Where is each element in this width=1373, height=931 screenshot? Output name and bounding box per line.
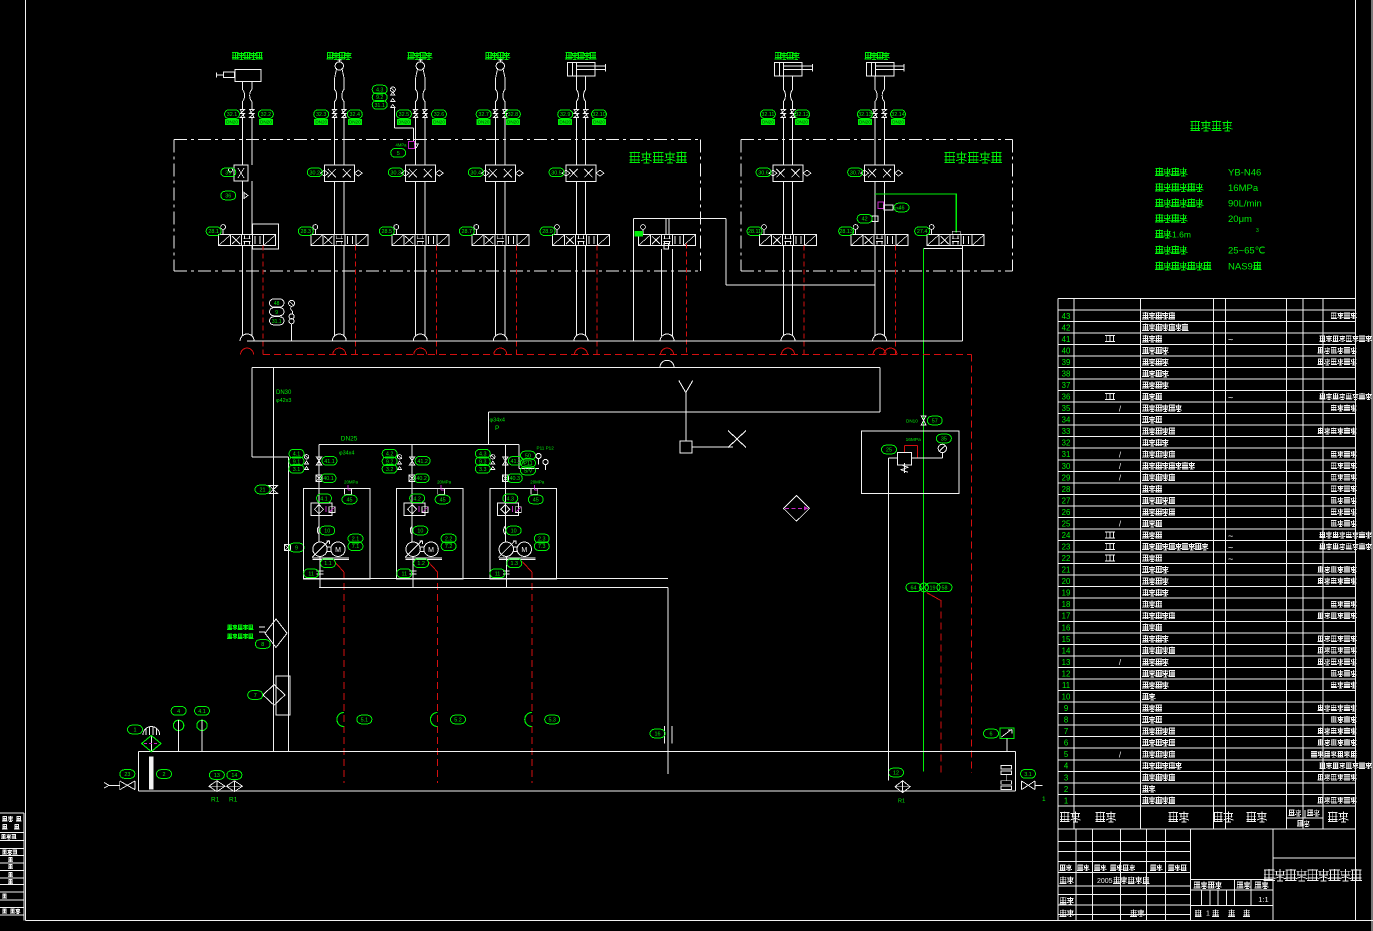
wire: valve9 bottom <box>924 248 963 250</box>
svg-text:8: 8 <box>1064 716 1068 725</box>
svg-text:P11 P12: P11 P12 <box>537 446 555 451</box>
R1 ovals <box>209 771 224 780</box>
svg-text:DN20: DN20 <box>593 120 605 125</box>
hose pair branch 7 <box>875 82 877 109</box>
tank top line <box>139 750 1016 752</box>
title block middle labels <box>1194 882 1222 889</box>
label oval 2 <box>157 770 172 779</box>
svg-text:32.8: 32.8 <box>508 112 519 118</box>
double throttle check module branch 6 <box>773 165 803 181</box>
DN30 return line <box>272 367 274 751</box>
title block right <box>1273 857 1356 859</box>
svg-text:DN20: DN20 <box>260 120 272 125</box>
left margin texts <box>2 816 13 821</box>
svg-text:28.1: 28.1 <box>208 229 219 235</box>
svg-text:DN20: DN20 <box>892 120 904 125</box>
svg-text:30.7: 30.7 <box>850 170 861 176</box>
svg-text:3: 3 <box>1064 773 1068 782</box>
svg-text:28.11: 28.11 <box>748 229 761 235</box>
svg-text:5: 5 <box>397 151 400 157</box>
svg-text:32.6: 32.6 <box>434 112 445 118</box>
svg-text:16: 16 <box>1062 623 1071 632</box>
svg-text:41.3: 41.3 <box>511 459 522 465</box>
svg-text:36: 36 <box>1062 393 1071 402</box>
svg-text:40: 40 <box>1062 346 1071 355</box>
wire: branch 2 lines into box <box>334 118 336 165</box>
wire: branch 2 actuator to hose <box>335 68 344 82</box>
label oval 32.4 <box>347 110 362 119</box>
svg-text:6: 6 <box>990 732 993 738</box>
svg-text:29: 29 <box>1062 473 1071 482</box>
svg-text:R1: R1 <box>211 797 220 804</box>
quick couplers branch 5 <box>574 110 588 118</box>
directional valve 6 (spare) <box>651 235 684 246</box>
svg-text:23: 23 <box>1062 543 1071 552</box>
wire: bus2 to P riser <box>879 367 881 412</box>
svg-text:25: 25 <box>886 448 892 454</box>
svg-text:11: 11 <box>495 571 501 577</box>
label oval 9 <box>289 543 304 552</box>
hydraulic cylinder (branch 6) <box>775 63 803 77</box>
tech parameters title <box>1190 121 1232 131</box>
svg-text:30.4: 30.4 <box>471 170 482 176</box>
gauge group symbols (branch 3) <box>390 87 395 92</box>
svg-text:41.2: 41.2 <box>417 459 428 465</box>
svg-text:16MPa: 16MPa <box>906 437 922 443</box>
wire: branch 4 actuator to hose <box>496 68 505 82</box>
branch 7 pressure valve (magenta) <box>878 202 884 209</box>
svg-text:DN10: DN10 <box>906 419 918 424</box>
svg-text:32.10: 32.10 <box>592 112 606 118</box>
wire: module to valve branch 4 <box>495 181 497 234</box>
drain funnel (green) <box>525 713 532 727</box>
svg-text:30: 30 <box>1062 462 1071 471</box>
BOM row lines <box>1058 320 1355 322</box>
label oval 1b <box>128 725 143 734</box>
svg-text:31.1: 31.1 <box>272 319 282 325</box>
hydraulic motor M4 (branch 4) <box>496 62 504 70</box>
module oval branch 7 <box>848 168 863 177</box>
label oval 35 <box>936 434 951 443</box>
wire: branch 1 lines into box <box>241 118 243 165</box>
green return line <box>923 249 925 772</box>
svg-text:4.1: 4.1 <box>198 709 206 715</box>
svg-text:20: 20 <box>1062 577 1071 586</box>
svg-text:48: 48 <box>274 301 280 307</box>
module oval branch 5 <box>549 168 564 177</box>
svg-text:DN25: DN25 <box>341 436 358 443</box>
white bus 2 (return) <box>252 366 880 368</box>
svg-text:10: 10 <box>417 529 423 535</box>
svg-text:20μm: 20μm <box>1228 214 1252 225</box>
green valve ovals <box>906 583 921 592</box>
svg-text:20MPa: 20MPa <box>344 480 358 485</box>
svg-text:1.3: 1.3 <box>511 561 519 567</box>
left margin table <box>23 813 25 920</box>
svg-text:3.1: 3.1 <box>293 467 301 473</box>
label oval 21 <box>255 485 270 494</box>
relief valve (red pilot) <box>904 446 917 459</box>
label oval 23 <box>120 770 135 779</box>
pump manifold DN25 <box>319 443 519 445</box>
svg-text:27.4: 27.4 <box>917 229 928 235</box>
label oval 32.7 <box>476 110 491 119</box>
svg-text:32.4: 32.4 <box>350 112 361 118</box>
svg-text:14: 14 <box>231 773 237 779</box>
svg-text:30.3: 30.3 <box>391 170 402 176</box>
label oval 32.14 <box>891 110 906 119</box>
svg-text:DN20: DN20 <box>559 120 571 125</box>
suction bus <box>319 586 668 588</box>
svg-text:14: 14 <box>1062 646 1071 655</box>
svg-text:19: 19 <box>930 585 936 591</box>
hose pair branch 2 <box>335 82 337 109</box>
directional valve branch 1 <box>231 235 264 246</box>
svg-text:4.1: 4.1 <box>320 496 328 502</box>
label oval 32.12 <box>795 110 810 119</box>
svg-text:19: 19 <box>1062 589 1071 598</box>
svg-text:36: 36 <box>225 194 231 200</box>
quick couplers branch 1 <box>240 110 254 118</box>
svg-text:R1: R1 <box>898 799 905 805</box>
red drain right 2 <box>971 355 973 773</box>
svg-text:8: 8 <box>261 642 264 648</box>
quick couplers branch 2 <box>332 110 346 118</box>
svg-text:3: 3 <box>1256 228 1259 234</box>
svg-text:11: 11 <box>1062 681 1070 690</box>
label oval 32.8 <box>505 110 520 119</box>
relief mini valve (branch 3, magenta) <box>408 142 414 149</box>
svg-text:DN20: DN20 <box>349 120 361 125</box>
svg-text:10: 10 <box>324 529 330 535</box>
svg-text:M: M <box>428 547 434 554</box>
label oval 32.10 <box>592 110 607 119</box>
wire: module to valve branch 7 <box>874 181 876 234</box>
svg-text:45: 45 <box>533 498 539 504</box>
svg-text:32.7: 32.7 <box>478 112 489 118</box>
svg-text:28.5: 28.5 <box>382 229 393 235</box>
svg-text:10: 10 <box>1062 693 1071 702</box>
wire: green pilot line from branch 7 <box>875 194 956 232</box>
svg-text:5.3: 5.3 <box>548 718 556 724</box>
directional valve branch 7 <box>863 235 896 246</box>
wire: branch 5 lines into box <box>575 118 577 165</box>
title block middle grid <box>1190 829 1192 921</box>
svg-text:22: 22 <box>1062 554 1071 563</box>
label oval 36 <box>221 191 236 200</box>
label oval 32.6 <box>432 110 447 119</box>
dash-dot enclosure: opener machine section <box>174 138 700 140</box>
svg-text:5: 5 <box>1064 750 1069 759</box>
svg-text:45: 45 <box>440 498 446 504</box>
svg-text:32.12: 32.12 <box>795 112 809 118</box>
svg-text:~: ~ <box>1228 542 1233 552</box>
svg-text:1.1: 1.1 <box>324 561 332 567</box>
svg-text:28.3: 28.3 <box>301 229 312 235</box>
sequence valve (branch 1) <box>234 165 248 181</box>
svg-text:YB-N46: YB-N46 <box>1228 168 1261 179</box>
R1 filter right <box>895 781 910 793</box>
wire: branch 6 lines into box <box>782 118 784 165</box>
drain funnel (green) <box>337 713 344 727</box>
svg-text:2: 2 <box>1064 785 1068 794</box>
svg-text:1: 1 <box>134 728 137 734</box>
svg-text:R1: R1 <box>229 797 238 804</box>
ball valve on line <box>285 545 291 551</box>
label: branch 7 name (green) <box>864 52 889 60</box>
red drain valve 6 <box>686 244 688 355</box>
svg-text:7.3: 7.3 <box>538 544 546 550</box>
relief valve box <box>861 431 959 493</box>
hose pair branch 3 <box>416 82 418 109</box>
wire: bus2 left drop <box>251 367 253 457</box>
svg-text:40.1: 40.1 <box>323 476 334 482</box>
svg-text:31.1: 31.1 <box>374 103 385 109</box>
svg-text:1:1: 1:1 <box>1258 895 1268 904</box>
hydraulic motor M3 (branch 3) <box>416 62 424 70</box>
svg-text:DN20: DN20 <box>315 120 327 125</box>
wire: module to valve branch 3 <box>415 181 417 234</box>
pilot filter diamond <box>784 495 810 521</box>
level switch <box>984 729 999 738</box>
return filter 8 <box>265 619 287 647</box>
svg-text:DN20: DN20 <box>796 120 808 125</box>
svg-text:45: 45 <box>347 498 353 504</box>
label oval 32.1 <box>225 110 240 119</box>
wire: relief pilot <box>889 457 898 459</box>
svg-text:41: 41 <box>1062 335 1071 344</box>
svg-text:DN30: DN30 <box>276 390 292 396</box>
svg-text:4: 4 <box>177 709 180 715</box>
red drain bus <box>263 354 972 356</box>
svg-text:DN20: DN20 <box>762 120 774 125</box>
pump unit 1 (pump P1 + motor M) <box>318 444 320 542</box>
svg-text:23: 23 <box>124 772 130 778</box>
module oval branch 4 <box>468 168 483 177</box>
wire: branch 7 cylinder to hose <box>874 76 876 82</box>
svg-text:33: 33 <box>1062 427 1071 436</box>
label: filter text <box>227 625 253 630</box>
svg-text:90L/min: 90L/min <box>1228 199 1262 210</box>
level gauge circles <box>173 720 183 730</box>
wire: gauge group to branch 3 <box>393 108 395 128</box>
pump unit 3 (pump P3 + motor M) <box>504 444 506 542</box>
NAS9 grade suffix <box>1253 262 1261 270</box>
svg-text:32.14: 32.14 <box>891 112 905 118</box>
svg-text:1: 1 <box>1064 796 1068 805</box>
red drain from pump unit <box>522 562 532 573</box>
svg-text:32: 32 <box>1062 439 1071 448</box>
hose pair branch 5 <box>576 82 578 109</box>
wire: valve 6 to bus <box>782 246 784 335</box>
svg-text:7: 7 <box>1064 727 1068 736</box>
svg-text:20MPa: 20MPa <box>530 480 544 485</box>
hose pair branch 1 <box>242 82 244 109</box>
BOM header row <box>1058 828 1355 830</box>
svg-text:32.1: 32.1 <box>227 112 238 118</box>
svg-text:30.6: 30.6 <box>758 170 769 176</box>
svg-text:9: 9 <box>295 546 298 552</box>
air breather <box>143 727 160 735</box>
label oval 39 <box>221 168 236 177</box>
svg-text:18: 18 <box>1062 600 1071 609</box>
label oval 8 <box>255 640 270 649</box>
svg-text:58: 58 <box>942 585 948 591</box>
BOM table grid <box>1057 298 1059 829</box>
svg-text:32.11: 32.11 <box>761 112 774 118</box>
svg-text:1.6m: 1.6m <box>1172 229 1191 239</box>
svg-text:DN20: DN20 <box>226 120 238 125</box>
dash-dot enclosure: hydraulic gun section <box>741 138 1012 140</box>
suction strainer <box>665 726 672 744</box>
svg-text:~: ~ <box>1228 335 1233 345</box>
spare valve enclosure <box>633 217 726 219</box>
wire: valve 5 to bus <box>575 246 577 335</box>
wire: branch 7 lines into box <box>874 118 876 165</box>
return filter 7 <box>276 676 290 715</box>
label: opener machine section (green) <box>629 152 687 164</box>
drawing title <box>1263 869 1362 881</box>
svg-text:3.3: 3.3 <box>479 467 487 473</box>
svg-text:26: 26 <box>1062 508 1071 517</box>
svg-text:17: 17 <box>1062 612 1071 621</box>
quick couplers branch 6 <box>781 110 795 118</box>
label oval 32.11 <box>760 110 775 119</box>
label oval 32.2 <box>258 110 273 119</box>
svg-text:DN20: DN20 <box>433 120 445 125</box>
title block left grid <box>1057 829 1059 921</box>
svg-text:3.2: 3.2 <box>386 467 394 473</box>
R1 return filters <box>209 781 225 792</box>
svg-text:7.1: 7.1 <box>352 544 360 550</box>
red drain right 1 <box>927 593 942 601</box>
hose pair branch 4 <box>496 82 498 109</box>
svg-text:20MPa: 20MPa <box>437 480 451 485</box>
svg-text:DN20: DN20 <box>478 120 490 125</box>
svg-text:12: 12 <box>893 771 899 777</box>
title block row labels <box>1060 865 1072 871</box>
hydraulic cylinder (branch 5) <box>568 63 596 77</box>
red drain from pump unit <box>334 562 344 573</box>
svg-text:40.2: 40.2 <box>416 476 427 482</box>
hydraulic cylinder (branch 7) <box>866 63 894 77</box>
wire: valve 2 to bus <box>334 246 336 335</box>
wire: branch 5 cylinder to hose <box>575 76 577 82</box>
svg-text:~: ~ <box>1228 531 1233 541</box>
tech parameter row <box>1155 168 1187 177</box>
pressure gauge <box>938 444 946 452</box>
label: branch 4 name (green) <box>485 52 510 60</box>
label oval 25 <box>882 445 897 454</box>
border frame <box>25 0 27 920</box>
module oval branch 2 <box>307 168 322 177</box>
svg-text:30.5: 30.5 <box>551 170 562 176</box>
svg-text:21: 21 <box>260 488 266 494</box>
label: branch 3 name (green) <box>407 52 432 60</box>
svg-text:32.13: 32.13 <box>858 112 872 118</box>
bus gauge ovals (white) <box>270 299 285 325</box>
bus gauge symbols <box>289 300 295 306</box>
svg-text:11: 11 <box>401 571 407 577</box>
svg-text:10: 10 <box>511 529 517 535</box>
svg-text:46: 46 <box>899 206 905 212</box>
label: branch 5 name (green) <box>565 52 596 60</box>
svg-text:~: ~ <box>1228 392 1233 402</box>
svg-text:5.2: 5.2 <box>454 718 462 724</box>
svg-text:31: 31 <box>1062 450 1071 459</box>
svg-text:13: 13 <box>1062 658 1071 667</box>
svg-text:2: 2 <box>163 772 166 778</box>
valve 6 green tag <box>635 231 644 237</box>
svg-text:27: 27 <box>1062 496 1071 505</box>
svg-text:P: P <box>495 425 499 432</box>
directional valve branch 3 <box>404 235 437 246</box>
double throttle check module branch 3 <box>405 165 435 181</box>
label oval 32.9 <box>558 110 573 119</box>
svg-text:42: 42 <box>1062 323 1071 332</box>
svg-text:25~65℃: 25~65℃ <box>1228 246 1266 257</box>
svg-text:28.7: 28.7 <box>462 229 473 235</box>
tech parameter row <box>1155 199 1203 208</box>
svg-text:25: 25 <box>1062 519 1071 528</box>
tank filler filter (green diamond) <box>142 736 161 752</box>
green line valve <box>920 583 929 592</box>
branch 7 small valve <box>872 216 878 221</box>
label oval 32.3 <box>314 110 329 119</box>
svg-text:21: 21 <box>1062 566 1071 575</box>
svg-text:43: 43 <box>1062 312 1071 321</box>
wire: relief to gauge <box>912 457 943 459</box>
gauge group ovals (branch 3) <box>372 85 387 94</box>
wire: link line A <box>725 218 727 285</box>
shutoff valve on DN30 <box>269 485 278 493</box>
svg-text:DN20: DN20 <box>859 120 871 125</box>
svg-text:4.2: 4.2 <box>413 496 421 502</box>
tech parameter row <box>1155 183 1203 192</box>
svg-text:32.5: 32.5 <box>399 112 410 118</box>
impact device (branch 1) <box>235 70 261 82</box>
wire: valve 1 to bus <box>241 246 243 335</box>
svg-text:57: 57 <box>932 419 938 425</box>
svg-text:2005: 2005 <box>1097 878 1113 885</box>
tech parameter row <box>1155 214 1187 223</box>
wire: branch 6 cylinder to hose <box>782 76 784 82</box>
svg-text:4MPa: 4MPa <box>396 143 408 148</box>
svg-text:34: 34 <box>1062 416 1071 425</box>
svg-text:32.2: 32.2 <box>261 112 272 118</box>
directional valve branch 5 <box>565 235 598 246</box>
svg-text:40.3: 40.3 <box>510 476 521 482</box>
svg-text:4: 4 <box>1064 762 1069 771</box>
wire: branch 3 actuator to hose <box>416 68 425 82</box>
svg-text:NAS9: NAS9 <box>1228 262 1253 273</box>
double throttle check module branch 5 <box>566 165 596 181</box>
label: branch 6 name (green) <box>775 52 800 60</box>
wire: branch 3 lines into box <box>415 118 417 165</box>
svg-text:φ34x4: φ34x4 <box>490 418 506 424</box>
wire: valve 3 to bus <box>415 246 417 335</box>
wire: branch 1 device to hose <box>241 81 243 83</box>
double throttle check module branch 7 <box>865 165 895 181</box>
pump unit 2 (pump P2 + motor M) <box>411 444 413 542</box>
tech parameter row <box>1155 262 1211 271</box>
svg-text:6: 6 <box>1064 739 1068 748</box>
svg-text:13: 13 <box>214 773 220 779</box>
svg-text:M: M <box>521 547 527 554</box>
svg-text:38: 38 <box>1062 370 1071 379</box>
module oval branch 3 <box>388 168 403 177</box>
svg-text:3.1: 3.1 <box>1024 772 1032 778</box>
